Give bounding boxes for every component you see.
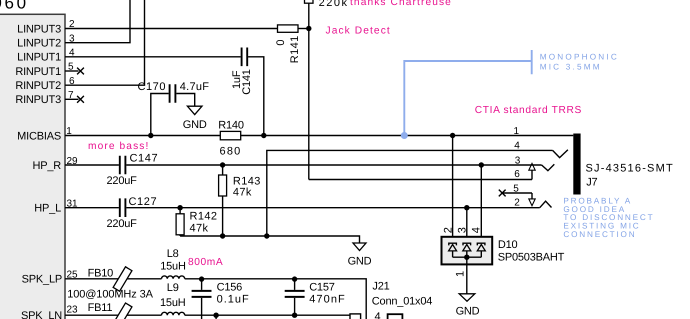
pin HP_R (29) bbox=[32, 156, 78, 172]
svg-text:GND: GND bbox=[456, 306, 480, 318]
svg-text:800mA: 800mA bbox=[188, 257, 223, 268]
svg-text:Conn_01x04: Conn_01x04 bbox=[372, 295, 432, 307]
wire HP_L left of C127 bbox=[65, 207, 119, 209]
ground GND of rail bbox=[348, 243, 372, 268]
svg-text:SJ-43516-SMT: SJ-43516-SMT bbox=[586, 162, 674, 174]
wire jack-detect row to switch arrow bbox=[309, 179, 532, 181]
svg-text:470nF: 470nF bbox=[309, 293, 346, 305]
svg-text:47k: 47k bbox=[190, 223, 209, 235]
capacitor C170 4.7uF bbox=[138, 81, 210, 136]
svg-text:960: 960 bbox=[0, 0, 29, 13]
svg-text:MONOPHONIC: MONOPHONIC bbox=[540, 52, 619, 61]
node junction C157/SPK_LP bbox=[292, 276, 297, 281]
svg-text:J21: J21 bbox=[372, 280, 389, 292]
svg-text:680: 680 bbox=[220, 146, 242, 158]
svg-text:1: 1 bbox=[454, 271, 466, 277]
svg-text:4: 4 bbox=[471, 227, 483, 233]
pin LINPUT1 (4) bbox=[17, 48, 75, 64]
wire 220k down through pin2 junction to jack-detect row bbox=[308, 3, 310, 179]
pin HP_L (31) bbox=[34, 199, 78, 215]
svg-text:4.7uF: 4.7uF bbox=[180, 81, 210, 93]
node junction C156/SPK_LP bbox=[199, 276, 204, 281]
svg-text:2: 2 bbox=[514, 197, 520, 208]
diode D10-b bbox=[463, 243, 471, 257]
wire SPK_LP row bbox=[65, 278, 162, 280]
connector J7 jack SJ-43516-SMT bbox=[573, 134, 674, 195]
wire D10 pin1 to ground bbox=[466, 257, 468, 294]
wire MICBIAS right of R140 to jack pin1 bbox=[241, 135, 574, 137]
svg-text:RINPUT2: RINPUT2 bbox=[15, 80, 61, 92]
wire SPK_LN after L9 bbox=[185, 314, 351, 316]
IC U? WM8960 codec body bbox=[0, 0, 65, 319]
svg-text:15uH: 15uH bbox=[160, 297, 186, 309]
node junction R142/HP_L bbox=[177, 205, 182, 210]
ferrite bead FB10 bbox=[88, 267, 132, 291]
wire HP_R left of C147 bbox=[65, 164, 119, 166]
svg-text:LINPUT2: LINPUT2 bbox=[17, 38, 61, 50]
wire HP_R to jack pin3 bbox=[126, 164, 541, 166]
connector J21 Conn_01x04 bbox=[350, 280, 432, 319]
wire HP_L down to D10 pin3 bbox=[466, 208, 468, 243]
capacitor C157 470nF bbox=[285, 279, 346, 315]
node junction rail/pin4 drop bbox=[264, 233, 269, 238]
node junction HP_L to D10 bbox=[464, 205, 469, 210]
svg-text:15uH: 15uH bbox=[160, 260, 186, 272]
wire D10 internal bus bbox=[453, 256, 482, 258]
svg-text:RINPUT1: RINPUT1 bbox=[15, 66, 61, 78]
pin SPK_LN (23) bbox=[21, 304, 78, 319]
node junction MICBIAS to D10 bbox=[450, 133, 455, 138]
pin RINPUT1 (5) no-connect bbox=[15, 62, 84, 78]
resistor R142 47k bbox=[176, 208, 217, 236]
svg-text:MIC 3.5MM: MIC 3.5MM bbox=[540, 62, 602, 71]
pin J7-5 no-connect bbox=[499, 183, 535, 205]
svg-text:C170: C170 bbox=[138, 81, 167, 93]
pin RINPUT3 (7) no-connect bbox=[15, 90, 84, 106]
svg-text:LINPUT3: LINPUT3 bbox=[17, 23, 61, 35]
pin J7-2 contact bbox=[514, 197, 551, 208]
svg-text:RINPUT3: RINPUT3 bbox=[15, 94, 61, 106]
wire SPK_LP after L8 to J21 drop bbox=[185, 279, 367, 319]
svg-text:Jack Detect: Jack Detect bbox=[326, 25, 391, 36]
svg-text:CTIA standard TRRS: CTIA standard TRRS bbox=[475, 105, 582, 116]
pin J7-4 contact bbox=[514, 140, 568, 157]
svg-text:L9: L9 bbox=[167, 282, 179, 294]
annotation PROBABLY A GOOD IDEA (light blue) bbox=[563, 197, 654, 239]
svg-text:6: 6 bbox=[514, 169, 520, 180]
svg-text:more bass!: more bass! bbox=[88, 141, 149, 152]
svg-text:SPK_LP: SPK_LP bbox=[22, 274, 62, 286]
svg-text:HP_L: HP_L bbox=[34, 203, 61, 215]
node junction rail/R143 bbox=[220, 233, 225, 238]
svg-text:C147: C147 bbox=[130, 153, 159, 165]
resistor R140 680 bbox=[218, 119, 244, 157]
wire HP_R down to D10 pin4 bbox=[480, 165, 482, 243]
node junction D10 bus bbox=[464, 255, 469, 260]
node junction C170/MICBIAS bbox=[148, 133, 153, 138]
svg-text:L8: L8 bbox=[167, 248, 179, 260]
capacitor C147 220uF bbox=[107, 153, 159, 187]
ground GND under C170 bbox=[183, 106, 207, 131]
svg-text:LINPUT1: LINPUT1 bbox=[17, 52, 61, 64]
diode D10-a bbox=[449, 243, 457, 257]
node junction HP_R to D10 bbox=[479, 162, 484, 167]
diode array D10 SP0503BAHT bbox=[442, 227, 565, 264]
annotation MONOPHONIC MIC bracket (light blue) bbox=[401, 50, 619, 139]
pin J7-3 contact bbox=[515, 156, 555, 171]
node junction C157/SPK_LN bbox=[292, 313, 297, 318]
svg-text:4: 4 bbox=[514, 140, 520, 151]
wire C141 to MICBIAS bbox=[248, 57, 264, 136]
svg-text:J7: J7 bbox=[586, 176, 597, 188]
inductor L8 15uH bbox=[160, 248, 186, 279]
svg-text:1: 1 bbox=[514, 126, 520, 137]
svg-text:CONNECTION: CONNECTION bbox=[563, 230, 636, 239]
wire R141 right to junction bbox=[298, 28, 309, 30]
resistor R? 220k pull-up (clipped at top) bbox=[305, 0, 349, 9]
svg-text:D10: D10 bbox=[498, 239, 518, 251]
svg-text:C157: C157 bbox=[309, 282, 335, 294]
pin MICBIAS (1) bbox=[17, 126, 72, 142]
svg-text:thanks Chartreuse: thanks Chartreuse bbox=[350, 0, 452, 8]
resistor R143 47k bbox=[219, 165, 261, 236]
node junction C141/MICBIAS bbox=[261, 133, 266, 138]
wire stub below SPK_LN junction bbox=[215, 315, 217, 319]
pin SPK_LP (25) bbox=[22, 270, 78, 286]
wire pin3 LINPUT2 up bbox=[65, 0, 130, 43]
ground GND under D10 bbox=[456, 294, 480, 318]
wire SPK_LN row bbox=[65, 314, 162, 316]
capacitor C141 bbox=[231, 48, 253, 95]
node junction SPK_LN stub bbox=[213, 313, 218, 318]
svg-text:FB11: FB11 bbox=[88, 302, 113, 314]
wire ground rail under R142/R143 bbox=[180, 236, 359, 243]
svg-text:220k: 220k bbox=[319, 0, 349, 9]
svg-text:0: 0 bbox=[275, 40, 287, 46]
pin RINPUT2 (6) bbox=[15, 76, 75, 92]
svg-text:HP_R: HP_R bbox=[32, 160, 61, 172]
node junction pin2/R141/220k bbox=[306, 26, 311, 31]
svg-text:MICBIAS: MICBIAS bbox=[17, 130, 61, 142]
svg-text:0.1uF: 0.1uF bbox=[217, 293, 250, 305]
svg-text:C141: C141 bbox=[241, 69, 253, 95]
wire HP_L to jack pin2 bbox=[126, 207, 539, 209]
node junction R143/HP_R bbox=[220, 162, 225, 167]
wire MICBIAS left of R140 bbox=[65, 135, 220, 137]
svg-text:C127: C127 bbox=[129, 196, 158, 208]
svg-text:3: 3 bbox=[515, 156, 521, 167]
svg-text:C156: C156 bbox=[217, 282, 243, 294]
wire pin6 RINPUT2 up bbox=[65, 0, 145, 85]
svg-text:220uF: 220uF bbox=[107, 218, 138, 230]
pin J7-6 switch arrow bbox=[514, 163, 535, 180]
resistor R141 bbox=[275, 25, 301, 63]
svg-text:47k: 47k bbox=[233, 186, 252, 198]
capacitor C156 0.1uF bbox=[192, 279, 250, 319]
inductor L9 15uH bbox=[160, 282, 186, 315]
wire pin4 LINPUT1 to C141 bbox=[65, 56, 241, 58]
diode D10-c bbox=[477, 243, 485, 257]
svg-text:4: 4 bbox=[375, 311, 381, 319]
svg-text:3: 3 bbox=[456, 227, 468, 233]
svg-text:R140: R140 bbox=[218, 119, 244, 131]
svg-text:SPK_LN: SPK_LN bbox=[21, 310, 62, 319]
pin LINPUT3 (2) bbox=[17, 19, 75, 35]
svg-text:100@100MHz 3A: 100@100MHz 3A bbox=[67, 288, 153, 300]
capacitor C127 220uF bbox=[107, 196, 158, 230]
wire MICBIAS down to D10 pin2 bbox=[452, 136, 454, 244]
wire pin2 LINPUT3 to R141 bbox=[65, 28, 278, 30]
svg-text:220uF: 220uF bbox=[107, 175, 138, 187]
svg-text:R142: R142 bbox=[190, 210, 218, 222]
pin LINPUT2 (3) bbox=[17, 33, 75, 49]
svg-text:R141: R141 bbox=[289, 35, 301, 63]
wire jack pin4 to ground rail bbox=[267, 150, 553, 236]
svg-text:SP0503BAHT: SP0503BAHT bbox=[498, 252, 565, 264]
svg-text:GND: GND bbox=[183, 119, 207, 131]
svg-text:GND: GND bbox=[348, 256, 372, 268]
ferrite bead FB11 bbox=[88, 302, 132, 319]
svg-text:FB10: FB10 bbox=[88, 267, 114, 279]
svg-text:23: 23 bbox=[66, 304, 78, 315]
svg-text:2: 2 bbox=[442, 227, 454, 233]
